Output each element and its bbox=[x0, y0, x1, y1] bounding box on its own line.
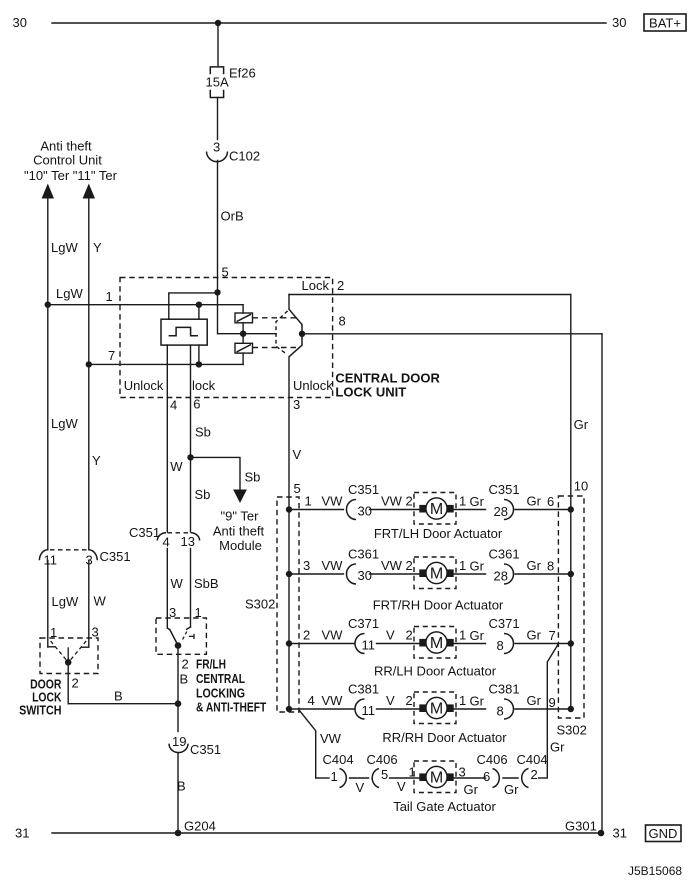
svg-text:C361: C361 bbox=[489, 547, 520, 562]
svg-text:B: B bbox=[114, 689, 123, 704]
splice pack S302 right box bbox=[557, 496, 587, 738]
wire VW 2 to motor bbox=[370, 494, 486, 510]
svg-text:28: 28 bbox=[494, 569, 508, 584]
svg-text:2: 2 bbox=[337, 278, 344, 293]
svg-text:3: 3 bbox=[213, 140, 220, 155]
svg-text:7: 7 bbox=[549, 628, 556, 643]
svg-text:V: V bbox=[293, 447, 302, 462]
wire 1 Gr bbox=[459, 693, 485, 709]
svg-text:Gr: Gr bbox=[550, 740, 565, 755]
wire Gr right rail down to G301 bbox=[574, 334, 602, 833]
wire 3 Gr to connector C406 pin 6 bbox=[459, 752, 508, 797]
svg-text:VW: VW bbox=[322, 558, 344, 573]
wire Y vertical bbox=[89, 197, 102, 550]
svg-text:BAT+: BAT+ bbox=[649, 16, 681, 31]
wire B down to connector 19 bbox=[177, 704, 179, 732]
motor M1 FRT/LH door actuator bbox=[414, 493, 456, 525]
node pin7 junction on Y bbox=[86, 361, 92, 367]
svg-text:3: 3 bbox=[459, 765, 466, 780]
svg-text:C102: C102 bbox=[229, 149, 260, 164]
svg-text:13: 13 bbox=[181, 534, 195, 549]
svg-text:Y: Y bbox=[92, 453, 101, 468]
node FR/LH pole bbox=[175, 642, 182, 649]
BAT+ terminal box bbox=[644, 14, 686, 31]
svg-text:2: 2 bbox=[406, 558, 413, 573]
svg-text:11: 11 bbox=[362, 703, 376, 718]
svg-text:Gr: Gr bbox=[527, 628, 542, 643]
svg-text:Sb: Sb bbox=[195, 425, 211, 440]
connector C381 pin 11 bbox=[348, 682, 379, 720]
arrow to anti theft module bbox=[233, 490, 247, 504]
svg-text:W: W bbox=[170, 459, 183, 474]
connector C361 pin 28 bbox=[489, 547, 520, 585]
svg-text:Ef26: Ef26 bbox=[229, 66, 256, 81]
svg-text:3: 3 bbox=[303, 558, 310, 573]
svg-text:SWITCH: SWITCH bbox=[19, 704, 61, 718]
svg-text:7: 7 bbox=[108, 348, 115, 363]
svg-text:V: V bbox=[397, 779, 406, 794]
wire W below connector bbox=[89, 561, 107, 648]
row 4 RR/RH: node S302 pin 4 bbox=[286, 693, 355, 712]
svg-text:Gr: Gr bbox=[470, 628, 485, 643]
wire pin1 branch into pulse generator bbox=[198, 305, 200, 320]
svg-text:LgW: LgW bbox=[51, 416, 78, 431]
GND terminal box bbox=[646, 825, 682, 842]
svg-text:SbB: SbB bbox=[194, 576, 219, 591]
svg-text:15A: 15A bbox=[206, 75, 229, 90]
svg-text:S302: S302 bbox=[557, 723, 587, 738]
svg-text:B: B bbox=[177, 779, 186, 794]
svg-text:LOCKING: LOCKING bbox=[196, 687, 245, 701]
wire from rail to fuse bbox=[217, 23, 219, 66]
node switch pole bbox=[65, 659, 72, 666]
svg-text:B: B bbox=[180, 672, 189, 687]
wire switch pin 2 down bbox=[68, 662, 79, 703]
wire 1 Gr bbox=[459, 558, 485, 574]
wire Gr 8 to S302 bbox=[515, 558, 574, 577]
svg-text:2: 2 bbox=[406, 693, 413, 708]
svg-text:& ANTI-THEFT: & ANTI-THEFT bbox=[196, 701, 267, 715]
wire Gr 9 to S302 bbox=[515, 693, 574, 712]
svg-text:1: 1 bbox=[106, 289, 113, 304]
svg-text:LgW: LgW bbox=[56, 286, 83, 301]
connector C351 pin 30 bbox=[347, 482, 380, 520]
node relay junction bbox=[240, 331, 246, 337]
svg-text:2: 2 bbox=[406, 494, 413, 509]
svg-text:1: 1 bbox=[459, 494, 466, 509]
svg-text:C404: C404 bbox=[323, 752, 354, 767]
svg-text:C361: C361 bbox=[348, 547, 379, 562]
svg-text:Sb: Sb bbox=[245, 470, 261, 485]
svg-text:10: 10 bbox=[574, 479, 588, 494]
wire LgW vertical bbox=[48, 197, 79, 550]
svg-text:Control Unit: Control Unit bbox=[33, 152, 102, 167]
connector C351 pin 28 bbox=[489, 482, 520, 520]
svg-text:2: 2 bbox=[303, 628, 310, 643]
svg-text:Tail Gate Actuator: Tail Gate Actuator bbox=[393, 799, 496, 814]
svg-text:30: 30 bbox=[358, 568, 372, 583]
wire VW from S302 to tail gate bbox=[299, 710, 342, 778]
svg-text:VW: VW bbox=[381, 558, 403, 573]
svg-text:Unlock: Unlock bbox=[124, 378, 164, 393]
wire V 2 to motor bbox=[377, 693, 486, 709]
svg-text:Anti theft: Anti theft bbox=[213, 524, 265, 539]
connector C361 pin 30 bbox=[347, 547, 380, 585]
svg-text:FRT/LH Door Actuator: FRT/LH Door Actuator bbox=[374, 526, 503, 541]
svg-text:4: 4 bbox=[163, 535, 170, 550]
svg-text:1: 1 bbox=[459, 558, 466, 573]
Anti theft Control Unit heading bbox=[24, 139, 118, 183]
connector C371 pin 8 bbox=[489, 616, 520, 654]
wire B to ground rail bbox=[177, 753, 186, 834]
svg-text:Gr: Gr bbox=[464, 782, 479, 797]
svg-text:Sb: Sb bbox=[195, 487, 211, 502]
svg-text:GND: GND bbox=[649, 826, 678, 841]
wire V 2 to motor bbox=[377, 628, 486, 644]
wire K1 to junction bbox=[242, 323, 244, 344]
wire pin5 to pulse generator bbox=[169, 293, 218, 319]
svg-text:RR/LH Door Actuator: RR/LH Door Actuator bbox=[374, 664, 497, 679]
svg-text:"9" Ter: "9" Ter bbox=[221, 509, 260, 524]
row 2 FRT/RH: node S302 pin 3 bbox=[286, 558, 344, 577]
svg-text:CENTRAL DOOR: CENTRAL DOOR bbox=[335, 371, 440, 386]
door lock switch contacts bbox=[48, 641, 89, 662]
svg-text:Gr: Gr bbox=[470, 694, 485, 709]
wire OrB down to central unit pin 5 bbox=[218, 161, 244, 293]
motor M2 FRT/RH door actuator bbox=[414, 557, 456, 589]
wire 1 Gr bbox=[459, 494, 485, 510]
svg-text:31: 31 bbox=[15, 826, 29, 841]
svg-text:6: 6 bbox=[483, 769, 490, 784]
svg-text:5: 5 bbox=[294, 481, 301, 496]
svg-text:19: 19 bbox=[172, 734, 186, 749]
svg-text:8: 8 bbox=[497, 638, 504, 653]
svg-text:1: 1 bbox=[459, 693, 466, 708]
wire 1 Gr bbox=[459, 628, 485, 644]
svg-text:C351: C351 bbox=[489, 482, 520, 497]
wire pin 1 (LgW) to central unit bbox=[48, 286, 243, 305]
svg-text:8: 8 bbox=[497, 704, 504, 719]
FR/LH CENTRAL LOCKING & ANTI-THEFT label bbox=[196, 657, 267, 714]
svg-text:C351: C351 bbox=[129, 525, 160, 540]
wire Gr 6 to S302 bbox=[515, 494, 574, 513]
wire VW 2 to motor bbox=[370, 558, 486, 574]
svg-text:Anti theft: Anti theft bbox=[40, 139, 92, 154]
svg-text:8: 8 bbox=[547, 559, 554, 574]
wire pin5 down to relay common bbox=[218, 292, 277, 333]
svg-text:Gr: Gr bbox=[504, 782, 519, 797]
wire Sb pin6 down bbox=[191, 345, 211, 532]
node pulse input from pin 1 bbox=[196, 302, 202, 308]
wire SbB to FR/LH switch bbox=[191, 549, 219, 628]
svg-text:4: 4 bbox=[170, 398, 177, 413]
relay coil K1 bbox=[235, 313, 253, 323]
svg-text:LOCK UNIT: LOCK UNIT bbox=[335, 385, 406, 400]
svg-text:30: 30 bbox=[612, 15, 626, 30]
svg-text:5: 5 bbox=[222, 265, 229, 280]
connector C102 pin 3 bbox=[207, 140, 261, 164]
wire dashed K2 to changeover bbox=[253, 347, 299, 349]
fuse Ef26 15A bbox=[206, 66, 256, 98]
svg-text:30: 30 bbox=[13, 15, 27, 30]
wire dashed K1 to changeover bbox=[253, 317, 297, 319]
wire W to FR/LH switch bbox=[167, 549, 183, 629]
svg-text:3: 3 bbox=[293, 397, 300, 412]
svg-text:Module: Module bbox=[219, 538, 262, 553]
changeover switch (lock/unlock) bbox=[276, 309, 302, 357]
CENTRAL DOOR LOCK UNIT label bbox=[335, 371, 440, 400]
svg-text:C381: C381 bbox=[489, 682, 520, 697]
svg-text:5: 5 bbox=[381, 767, 388, 782]
wire K2 to pin7 wire bbox=[242, 353, 244, 364]
svg-text:C381: C381 bbox=[348, 682, 379, 697]
wire from C404 up to Gr line bbox=[539, 777, 548, 779]
node Sb branch bbox=[187, 454, 193, 460]
svg-text:C351: C351 bbox=[100, 549, 131, 564]
svg-text:G204: G204 bbox=[184, 819, 216, 834]
svg-text:V: V bbox=[386, 628, 395, 643]
wire Gr to connector C404 pin 2 bbox=[503, 752, 548, 797]
door lock switch box bbox=[40, 638, 98, 674]
svg-text:Unlock: Unlock bbox=[293, 378, 333, 393]
svg-text:W: W bbox=[94, 594, 107, 609]
wire pin 7 (Y) to central unit bbox=[89, 348, 243, 364]
svg-text:2: 2 bbox=[531, 767, 538, 782]
svg-text:Y: Y bbox=[93, 240, 102, 255]
svg-text:Gr: Gr bbox=[527, 494, 542, 509]
svg-text:Gr: Gr bbox=[470, 494, 485, 509]
wire V to motor bbox=[390, 765, 486, 795]
svg-text:6: 6 bbox=[547, 494, 554, 509]
svg-text:V: V bbox=[356, 780, 365, 795]
wire Gr from S302 to tail gate bbox=[547, 645, 565, 778]
svg-text:VW: VW bbox=[322, 693, 344, 708]
svg-text:VW: VW bbox=[320, 731, 342, 746]
svg-text:1: 1 bbox=[459, 628, 466, 643]
motor M4 RR/RH door actuator bbox=[414, 692, 456, 724]
svg-text:FRT/RH Door Actuator: FRT/RH Door Actuator bbox=[373, 598, 504, 613]
wire Lock feed down right side bbox=[571, 295, 588, 710]
wire LgW below connector bbox=[48, 561, 79, 648]
wire Sb branch to anti theft module bbox=[191, 457, 261, 490]
svg-text:Gr: Gr bbox=[527, 558, 542, 573]
svg-text:31: 31 bbox=[613, 826, 627, 841]
node 31 ground rail bbox=[15, 826, 627, 841]
node B junction bbox=[175, 700, 182, 707]
svg-text:11: 11 bbox=[362, 638, 376, 653]
svg-text:Gr: Gr bbox=[470, 559, 485, 574]
wire Gr 7 to S302 bbox=[515, 628, 574, 647]
svg-text:3: 3 bbox=[92, 625, 99, 640]
svg-text:30: 30 bbox=[358, 504, 372, 519]
FR/LH switch contacts bbox=[167, 627, 194, 646]
svg-text:C406: C406 bbox=[477, 752, 508, 767]
connector C351 pins 4/13 bbox=[129, 525, 200, 550]
svg-text:Gr: Gr bbox=[574, 417, 589, 432]
svg-text:lock: lock bbox=[192, 378, 216, 393]
svg-text:OrB: OrB bbox=[221, 209, 244, 224]
wire B from switch to junction bbox=[68, 689, 178, 704]
svg-text:FR/LH: FR/LH bbox=[196, 657, 226, 671]
svg-text:1: 1 bbox=[331, 769, 338, 784]
wire pin 8 (Gr) to right rail bbox=[302, 314, 602, 334]
svg-text:DOOR: DOOR bbox=[30, 678, 61, 692]
svg-text:11: 11 bbox=[44, 553, 58, 568]
central door lock unit box bbox=[120, 278, 333, 398]
relay coil K2 bbox=[235, 343, 253, 353]
svg-text:VW: VW bbox=[381, 494, 403, 509]
svg-text:Gr: Gr bbox=[527, 693, 542, 708]
svg-text:2: 2 bbox=[182, 657, 189, 672]
svg-text:"10" Ter "11" Ter: "10" Ter "11" Ter bbox=[24, 168, 118, 183]
pulse generator U1 bbox=[161, 319, 207, 345]
svg-text:RR/RH Door Actuator: RR/RH Door Actuator bbox=[382, 730, 507, 745]
svg-text:LgW: LgW bbox=[52, 594, 79, 609]
svg-text:C404: C404 bbox=[517, 752, 548, 767]
row 5 tail gate: wire to connector C404 pin 1 bbox=[316, 752, 353, 788]
node G204 bbox=[175, 819, 216, 837]
svg-text:C351: C351 bbox=[348, 482, 379, 497]
svg-text:Lock: Lock bbox=[302, 278, 330, 293]
splice pack S302 left box bbox=[245, 497, 299, 712]
wire 30 rail bbox=[52, 22, 606, 24]
connector C381 pin 8 bbox=[489, 682, 520, 720]
svg-text:9: 9 bbox=[549, 695, 556, 710]
motor M5 tail gate actuator bbox=[414, 761, 456, 793]
node pin1 junction on LgW bbox=[45, 302, 51, 308]
DOOR LOCK SWITCH label bbox=[19, 678, 61, 718]
svg-text:CENTRAL: CENTRAL bbox=[196, 672, 245, 686]
svg-text:8: 8 bbox=[339, 314, 346, 329]
connector C371 pin 11 bbox=[348, 616, 379, 654]
FR/LH central locking switch box bbox=[156, 618, 206, 654]
motor M3 RR/LH door actuator bbox=[414, 627, 456, 659]
svg-text:4: 4 bbox=[308, 693, 315, 708]
anti theft module label bbox=[213, 509, 265, 554]
svg-text:6: 6 bbox=[193, 397, 200, 412]
svg-text:2: 2 bbox=[406, 628, 413, 643]
svg-text:2: 2 bbox=[72, 676, 79, 691]
svg-text:G301: G301 bbox=[565, 819, 597, 834]
wire pin 2 (B) down bbox=[178, 646, 189, 704]
svg-text:28: 28 bbox=[494, 504, 508, 519]
svg-text:C351: C351 bbox=[190, 742, 221, 757]
svg-text:VW: VW bbox=[322, 494, 344, 509]
svg-text:J5B15068: J5B15068 bbox=[628, 864, 682, 878]
svg-text:LOCK: LOCK bbox=[32, 691, 61, 705]
wire V to connector C406 pin 5 bbox=[350, 752, 398, 795]
arrow to anti theft unit (Y) bbox=[83, 184, 95, 199]
wire Unlock pin 3 (V) down bbox=[289, 357, 302, 709]
row 1 FRT/LH: node S302 pin 1 bbox=[286, 494, 344, 513]
svg-text:V: V bbox=[386, 693, 395, 708]
svg-text:C406: C406 bbox=[367, 752, 398, 767]
svg-text:VW: VW bbox=[322, 628, 344, 643]
svg-text:LgW: LgW bbox=[51, 240, 78, 255]
arrow to anti theft unit (LgW) bbox=[42, 184, 54, 199]
node 30 bus (BAT+) bbox=[13, 15, 627, 30]
connector C351 pin 19 bbox=[169, 734, 221, 757]
connector C351 pins 11/3 bbox=[39, 549, 130, 568]
wire W pin4 down bbox=[167, 345, 183, 532]
node pin 5 bbox=[214, 265, 228, 296]
node pulse out to pin7 wire bbox=[196, 345, 202, 367]
svg-text:W: W bbox=[171, 576, 184, 591]
central unit pin labels bbox=[124, 378, 334, 413]
node changeover to pin 8 bbox=[299, 331, 305, 337]
svg-text:C371: C371 bbox=[348, 616, 379, 631]
node G301 bbox=[565, 819, 604, 837]
wire pin1 corner down to relay K1 bbox=[242, 305, 244, 313]
svg-text:S302: S302 bbox=[245, 597, 275, 612]
row 3 RR/LH: node S302 pin 2 bbox=[286, 628, 355, 647]
svg-text:1: 1 bbox=[305, 494, 312, 509]
wire fuse to C102 bbox=[217, 98, 219, 140]
svg-text:C371: C371 bbox=[489, 616, 520, 631]
wire Lock pin 2 bbox=[289, 278, 571, 309]
